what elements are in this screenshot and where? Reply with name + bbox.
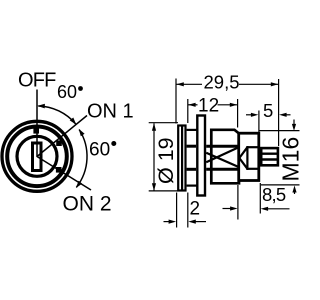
svg-text:29,5: 29,5: [204, 71, 240, 92]
svg-text:Ø 19: Ø 19: [154, 137, 178, 184]
svg-text:ON 2: ON 2: [63, 193, 112, 216]
svg-text:OFF: OFF: [18, 70, 56, 92]
svg-text:2: 2: [190, 199, 201, 220]
svg-text:ON 1: ON 1: [87, 100, 134, 122]
svg-text:M16: M16: [278, 137, 301, 182]
svg-text:8,5: 8,5: [262, 184, 286, 205]
svg-text:5: 5: [263, 100, 273, 121]
svg-text:12: 12: [198, 95, 219, 116]
svg-text:60: 60: [89, 140, 110, 161]
svg-text:60: 60: [57, 82, 77, 102]
